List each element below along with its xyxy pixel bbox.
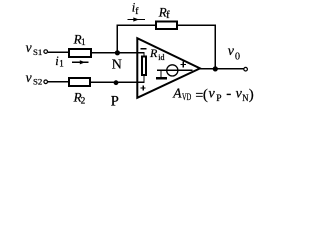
label R2 bbox=[73, 89, 86, 106]
output terminal vo bbox=[244, 67, 248, 71]
svg-text:R: R bbox=[149, 46, 158, 60]
svg-text:P: P bbox=[111, 93, 119, 109]
wire right corner down to output node bbox=[214, 25, 216, 69]
label R1 bbox=[73, 31, 86, 48]
label i1 bbox=[55, 54, 64, 69]
svg-text:id: id bbox=[158, 53, 164, 62]
minus sign at inverting input bbox=[141, 48, 147, 50]
svg-text:P: P bbox=[216, 94, 221, 104]
label vo bbox=[228, 44, 240, 62]
terminal vS1 bbox=[44, 50, 48, 54]
output node bbox=[213, 66, 218, 71]
wire Rf to right corner bbox=[177, 24, 216, 26]
arrow if bbox=[128, 17, 146, 21]
wire node N up to feedback branch bbox=[116, 25, 118, 53]
svg-text:N: N bbox=[112, 57, 122, 72]
wire feedback top left to Rf bbox=[117, 24, 157, 26]
wire vS2 to R2 bbox=[48, 81, 69, 83]
wire op-amp output to terminal bbox=[199, 68, 244, 70]
label AVD=(vP - vN) bbox=[172, 86, 254, 105]
dependent source E1 (controlled voltage source circle) bbox=[167, 65, 178, 76]
wire source left lead bbox=[157, 69, 178, 71]
svg-text:S2: S2 bbox=[33, 77, 42, 87]
resistor R1 bbox=[69, 49, 91, 57]
label vS2 bbox=[26, 70, 43, 87]
label vS1 bbox=[26, 40, 43, 57]
resistor Rf bbox=[156, 22, 177, 30]
svg-text:(: ( bbox=[203, 87, 208, 103]
resistor Rid (input resistance, vertical) bbox=[142, 53, 146, 83]
svg-text:v: v bbox=[228, 44, 235, 59]
arrow i1 bbox=[72, 60, 89, 64]
svg-text:): ) bbox=[249, 87, 254, 103]
svg-text:0: 0 bbox=[235, 51, 240, 62]
wire R2 to op-amp plus input (through node P) bbox=[90, 81, 145, 83]
terminal vS2 bbox=[44, 80, 48, 84]
node P bbox=[114, 80, 119, 85]
label if bbox=[132, 1, 140, 17]
svg-text:v: v bbox=[26, 40, 32, 55]
svg-text:v: v bbox=[26, 70, 32, 85]
resistor R2 bbox=[69, 78, 90, 86]
plus sign at non-inverting input bbox=[141, 85, 146, 90]
svg-text:-: - bbox=[226, 86, 231, 102]
svg-text:VD: VD bbox=[182, 92, 191, 102]
node N bbox=[115, 50, 120, 55]
label Rid bbox=[149, 46, 165, 62]
svg-text:1: 1 bbox=[59, 59, 64, 69]
ground (source common) bbox=[156, 70, 167, 78]
svg-text:N: N bbox=[242, 94, 248, 104]
svg-text:v: v bbox=[209, 87, 216, 102]
svg-text:A: A bbox=[172, 86, 182, 101]
svg-text:S1: S1 bbox=[33, 47, 42, 57]
wire R1 to op-amp minus input (through node N) bbox=[91, 52, 145, 54]
wire source right lead bbox=[178, 69, 193, 71]
label Rf bbox=[158, 4, 170, 21]
svg-text:2: 2 bbox=[81, 96, 86, 106]
op-amp triangle U1 bbox=[137, 38, 200, 98]
svg-text:f: f bbox=[166, 9, 170, 21]
plus sign at source output bbox=[180, 62, 186, 68]
wire vS1 to R1 bbox=[48, 51, 69, 53]
svg-text:1: 1 bbox=[81, 38, 86, 48]
